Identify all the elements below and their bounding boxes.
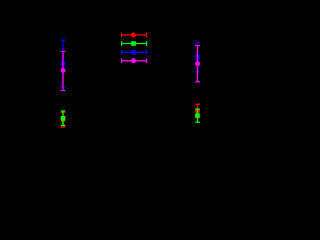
right blue square marker [195, 55, 200, 60]
left red circle marker [61, 117, 66, 122]
right green errorbar: bottom cap [195, 121, 200, 123]
middle magenta errorbar: horizontal line [122, 60, 147, 62]
left magenta circle marker [61, 68, 66, 73]
middle red errorbar: left cap [121, 33, 123, 38]
left red errorbar: vertical line [62, 112, 64, 127]
middle blue errorbar: horizontal line [122, 51, 147, 53]
left magenta errorbar: vertical line [62, 52, 64, 91]
right blue errorbar: top cap [195, 42, 200, 44]
left blue errorbar: top cap [61, 39, 66, 41]
middle green errorbar: left cap [121, 41, 123, 46]
left red errorbar: bottom cap [61, 126, 66, 128]
right magenta errorbar: bottom cap [195, 81, 200, 83]
right green square marker [195, 113, 200, 118]
middle magenta errorbar: left cap [121, 59, 123, 64]
right green errorbar: top cap [195, 108, 200, 110]
left magenta errorbar: bottom cap [61, 90, 66, 92]
middle blue errorbar: left cap [121, 50, 123, 55]
left blue square marker [61, 61, 66, 66]
right blue errorbar: bottom cap [195, 71, 200, 73]
left red errorbar: top cap [61, 111, 66, 113]
left blue errorbar: bottom cap [61, 86, 66, 88]
middle blue square marker [131, 50, 136, 55]
left green errorbar: top cap [61, 110, 66, 112]
middle red errorbar: horizontal line [122, 34, 147, 36]
middle green errorbar: right cap [146, 41, 148, 46]
middle green errorbar: horizontal line [122, 43, 147, 45]
right red errorbar: bottom cap [195, 117, 200, 119]
left green errorbar: bottom cap [61, 125, 66, 127]
right blue errorbar: vertical line [197, 43, 199, 72]
middle blue errorbar: right cap [146, 50, 148, 55]
right red errorbar: top cap [195, 103, 200, 105]
right magenta errorbar: vertical line [197, 46, 199, 82]
middle green square marker [131, 41, 136, 46]
left green errorbar: vertical line [62, 111, 64, 126]
left magenta errorbar: top cap [61, 51, 66, 53]
middle magenta errorbar: right cap [146, 59, 148, 64]
right green errorbar: vertical line [197, 109, 199, 122]
left green square marker [61, 116, 66, 121]
right red circle marker [195, 108, 200, 113]
left blue errorbar: vertical line [62, 40, 64, 87]
right magenta circle marker [195, 61, 200, 66]
middle magenta circle marker [131, 58, 136, 63]
middle red errorbar: right cap [146, 33, 148, 38]
right red errorbar: vertical line [197, 104, 199, 118]
right magenta errorbar: top cap [195, 45, 200, 47]
middle red circle marker [131, 32, 136, 37]
